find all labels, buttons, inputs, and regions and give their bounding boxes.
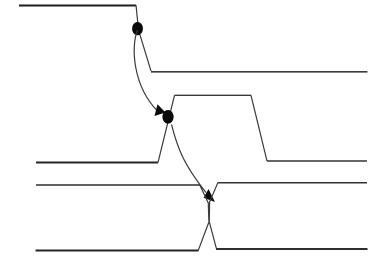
- wire: bus crossover edge B (signal 4 to signal 3): [198, 183, 218, 251]
- wire: signal 1 falling edge: [136, 5, 151, 71]
- wire: signal 3 level right: [218, 182, 368, 184]
- node: event dot D1 on signal 1: [132, 22, 143, 35]
- wire: signal 4 level left: [36, 250, 199, 252]
- wire: signal 1 high level: [19, 5, 136, 7]
- wire: causality arrow A2 curve from D2: [172, 125, 207, 193]
- arrowhead of causality arrow A2: [204, 189, 215, 202]
- wire: signal 2 falling edge: [251, 95, 267, 161]
- wire: signal 2 low level left: [36, 162, 158, 164]
- wire: signal 3 level left: [36, 184, 200, 186]
- wire: signal 2 rising edge: [158, 95, 175, 162]
- wire: signal 1 low level: [151, 71, 368, 73]
- node: event dot D2 on signal 2: [162, 110, 173, 124]
- wire: signal 4 level right: [216, 248, 368, 250]
- wire: signal 2 high level: [175, 94, 252, 96]
- wire: bus crossover edge A (signal 3 to signal 4): [200, 186, 216, 249]
- wire: causality arrow A1 curve from D1: [134, 30, 157, 111]
- wire: signal 2 low level right: [267, 160, 367, 162]
- arrowhead of causality arrow A1: [155, 104, 166, 116]
